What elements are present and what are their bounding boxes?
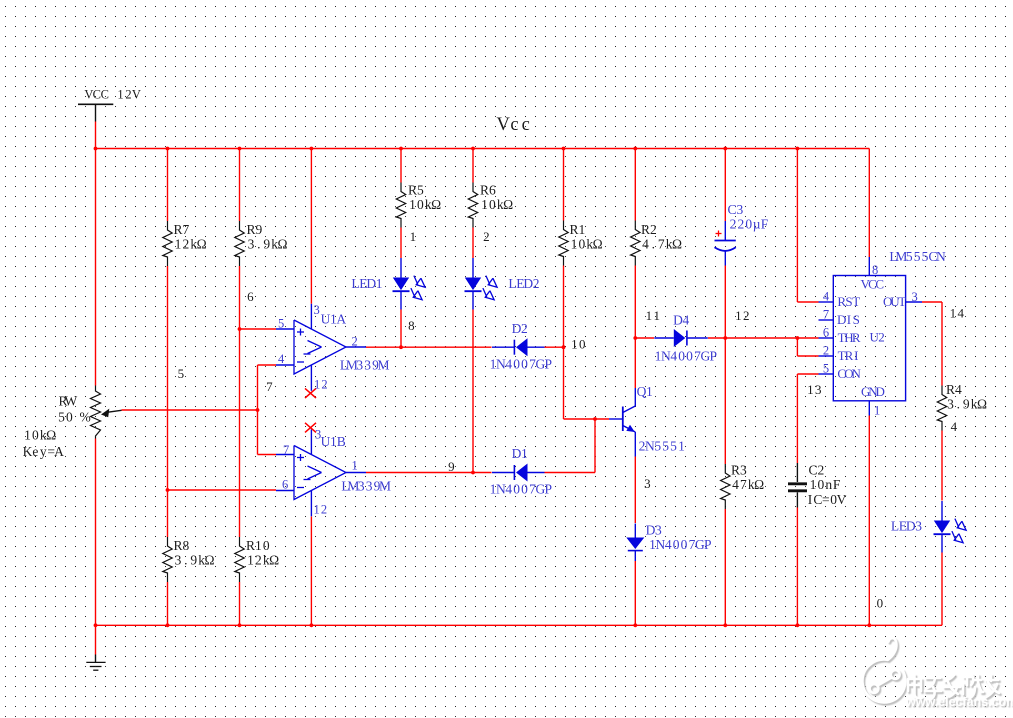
svg-text:R6: R6	[480, 183, 496, 198]
svg-text:3.9kΩ: 3.9kΩ	[947, 396, 987, 411]
svg-text:GND: GND	[861, 384, 885, 399]
svg-text:8: 8	[872, 263, 878, 277]
svg-text:LM339M: LM339M	[340, 358, 390, 373]
svg-text:6: 6	[823, 326, 829, 340]
svg-text:LED3: LED3	[891, 519, 922, 534]
svg-text:R1: R1	[569, 222, 585, 237]
svg-text:10kΩ: 10kΩ	[481, 197, 513, 212]
svg-text:5: 5	[823, 362, 829, 376]
svg-text:R3: R3	[731, 463, 747, 478]
svg-text:3.9kΩ: 3.9kΩ	[248, 236, 288, 251]
svg-text:THR: THR	[838, 330, 861, 345]
svg-text:R8: R8	[173, 538, 189, 553]
svg-text:2: 2	[352, 335, 358, 349]
svg-text:1N4007GP: 1N4007GP	[490, 482, 552, 497]
svg-text:LED2: LED2	[508, 276, 539, 291]
svg-text:12: 12	[314, 378, 328, 392]
svg-text:R9: R9	[246, 222, 262, 237]
svg-text:10kΩ: 10kΩ	[409, 197, 441, 212]
svg-text:12: 12	[735, 308, 749, 323]
svg-text:R2: R2	[641, 222, 657, 237]
svg-text:2N5551: 2N5551	[639, 439, 685, 454]
svg-text:6: 6	[247, 289, 254, 304]
svg-text:5: 5	[278, 317, 284, 331]
svg-text:3: 3	[644, 476, 651, 491]
svg-text:4: 4	[823, 290, 830, 304]
svg-text:CON: CON	[837, 366, 861, 381]
svg-text:R5: R5	[408, 183, 424, 198]
svg-text:3: 3	[912, 290, 918, 304]
svg-text:D4: D4	[673, 313, 689, 328]
svg-text:1N4007GP: 1N4007GP	[655, 349, 717, 364]
svg-text:www.elecfans.com: www.elecfans.com	[905, 695, 1013, 709]
svg-text:OUT: OUT	[883, 294, 906, 309]
svg-text:220µF: 220µF	[730, 217, 769, 232]
svg-text:RW: RW	[58, 394, 77, 409]
svg-text:10kΩ: 10kΩ	[571, 236, 603, 251]
svg-text:3.9kΩ: 3.9kΩ	[175, 552, 215, 567]
svg-text:10nF: 10nF	[810, 477, 841, 492]
svg-text:7: 7	[823, 308, 829, 322]
svg-text:IC=0V: IC=0V	[808, 492, 847, 507]
svg-text:12: 12	[314, 503, 328, 517]
svg-text:47kΩ: 47kΩ	[732, 477, 764, 492]
svg-text:1N4007GP: 1N4007GP	[649, 537, 711, 552]
svg-text:LED1: LED1	[351, 276, 382, 291]
svg-text:D2: D2	[512, 321, 528, 336]
svg-text:U1B: U1B	[321, 434, 346, 449]
svg-text:0: 0	[877, 596, 884, 611]
svg-text:R10: R10	[246, 538, 270, 553]
svg-text:1N4007GP: 1N4007GP	[490, 357, 552, 372]
svg-text:C3: C3	[727, 202, 743, 217]
svg-text:DIS: DIS	[837, 312, 860, 327]
svg-text:1: 1	[410, 229, 417, 244]
svg-text:C2: C2	[808, 463, 824, 478]
svg-text:2: 2	[483, 229, 490, 244]
svg-text:4: 4	[278, 352, 285, 366]
svg-text:VCC: VCC	[860, 277, 884, 292]
svg-text:8: 8	[408, 318, 415, 333]
svg-text:12kΩ: 12kΩ	[175, 236, 207, 251]
svg-text:3: 3	[314, 303, 320, 317]
svg-text:Vcc: Vcc	[496, 115, 529, 135]
svg-text:Q1: Q1	[637, 384, 653, 399]
svg-text:Key=A: Key=A	[23, 444, 65, 459]
svg-text:10kΩ: 10kΩ	[24, 428, 56, 443]
svg-text:U2: U2	[869, 330, 884, 345]
svg-text:5: 5	[178, 366, 185, 381]
svg-text:1: 1	[352, 459, 358, 473]
svg-text:4: 4	[951, 419, 958, 434]
svg-text:R4: R4	[946, 382, 962, 397]
svg-text:TRI: TRI	[838, 348, 859, 363]
svg-text:R7: R7	[173, 222, 189, 237]
svg-text:13: 13	[807, 382, 821, 397]
svg-text:14: 14	[950, 306, 965, 321]
svg-text:D3: D3	[646, 523, 662, 538]
svg-text:LM339M: LM339M	[341, 479, 391, 494]
svg-text:4.7kΩ: 4.7kΩ	[642, 236, 682, 251]
svg-text:U1A: U1A	[321, 312, 347, 327]
svg-text:7: 7	[283, 443, 289, 457]
svg-text:3: 3	[315, 428, 321, 442]
svg-text:D1: D1	[512, 446, 528, 461]
svg-text:12kΩ: 12kΩ	[247, 552, 279, 567]
svg-text:LM555CN: LM555CN	[889, 249, 946, 264]
svg-text:9: 9	[448, 459, 455, 474]
svg-text:VCC 12V: VCC 12V	[84, 88, 140, 102]
svg-text:11: 11	[646, 308, 660, 323]
svg-text:2: 2	[823, 344, 829, 358]
svg-text:6: 6	[282, 478, 288, 492]
svg-text:10: 10	[571, 337, 585, 352]
svg-text:1: 1	[874, 404, 880, 418]
svg-text:RST: RST	[837, 294, 860, 309]
svg-text:7: 7	[266, 379, 273, 394]
